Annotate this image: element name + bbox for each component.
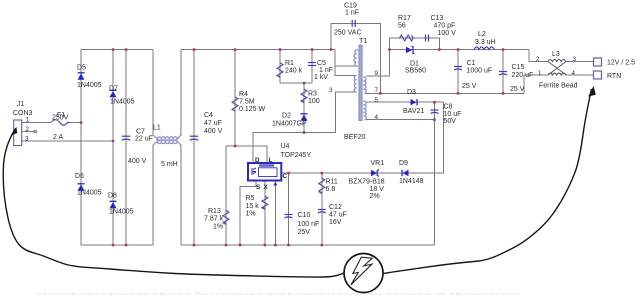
svg-text:1N4005: 1N4005 [109,209,134,216]
capacitor C10 [285,215,293,219]
diode D3 [411,99,418,105]
svg-text:2 A: 2 A [53,134,63,141]
wire C1 column [457,50,459,94]
svg-text:100 nF: 100 nF [298,221,320,228]
svg-text:L: L [269,157,273,164]
svg-text:L2: L2 [478,31,486,38]
svg-text:5: 5 [375,97,379,104]
ferrite bead L3 [548,60,566,76]
svg-text:240 k: 240 k [285,68,303,75]
wire pin5 bias line [366,101,444,103]
IC U4 TOP245Y [248,163,281,186]
wire R4 column [234,50,236,147]
wire L-pin line [226,146,267,163]
svg-text:1 nF: 1 nF [319,67,333,74]
junction (275,245) [274,244,277,247]
svg-text:25 V: 25 V [462,83,477,90]
svg-text:D7: D7 [109,86,118,93]
wire snubber line [389,38,439,50]
wire top rail middle segment [181,49,335,51]
wire C4 column [193,50,195,246]
wire output top step [529,50,548,62]
junction (435,120) [433,119,436,122]
svg-text:3: 3 [573,56,577,63]
svg-text:100 V: 100 V [438,30,457,37]
wire control line [281,172,443,174]
svg-text:400 V: 400 V [204,128,223,135]
junction (322,173) [321,172,324,175]
wire C8 column [434,102,436,120]
svg-text:Ferrite Bead: Ferrite Bead [539,83,578,90]
svg-text:C: C [283,173,288,180]
svg-text:CON3: CON3 [13,110,33,117]
svg-text:18 V: 18 V [370,186,385,193]
svg-text:3.3 uH: 3.3 uH [475,39,496,46]
svg-text:L3: L3 [552,51,560,58]
junction (280,50) [279,48,282,51]
svg-text:D: D [255,157,260,164]
svg-text:C12: C12 [329,204,342,211]
svg-text:BEF20: BEF20 [344,134,366,141]
wire L1 right top [180,50,182,136]
wire C5 leg [311,50,313,84]
wire R3 D2 column [303,83,305,133]
svg-text:1%: 1% [246,211,256,218]
diode D2 [301,114,308,121]
diode D6 [78,184,85,191]
svg-text:BAV21: BAV21 [403,108,424,115]
svg-text:0.125 W: 0.125 W [239,106,265,113]
wire D9 feed riser [443,102,445,173]
wire J1 pin1 [22,122,51,124]
wire return to terminal [566,74,594,76]
svg-text:D8: D8 [108,193,117,200]
junction (113,141) [112,140,115,143]
svg-text:2%: 2% [370,193,380,200]
svg-text:R3: R3 [308,91,317,98]
wire R11 C12 column [321,173,323,245]
svg-text:3: 3 [25,136,29,143]
svg-text:22 uF: 22 uF [135,136,153,143]
junction (194,245) [193,244,196,247]
junction (265,245) [264,244,267,247]
resistor R11 [319,178,325,194]
svg-text:D2: D2 [282,113,291,120]
wire C15 column [502,50,504,94]
svg-text:7: 7 [375,87,379,94]
svg-text:9: 9 [375,70,379,77]
svg-text:VR1: VR1 [371,160,385,167]
resistor R1 [277,63,283,77]
junction (289,173) [287,172,290,175]
wire bottom rail right segment [181,244,435,246]
capacitor C4 [190,136,198,140]
wire C19 loop [331,23,380,93]
junction (194,50) [193,48,196,51]
svg-text:C19: C19 [344,3,357,10]
wire J1 pin3 [22,140,113,142]
junction (380,93) [379,92,382,95]
svg-text:4: 4 [572,70,576,77]
svg-text:5 mH: 5 mH [161,161,178,168]
svg-text:470 pF: 470 pF [434,23,456,30]
diode D5 [78,73,85,80]
junction (126,50) [125,48,128,51]
svg-text:C5: C5 [317,60,326,67]
diode D9 [402,170,409,176]
svg-text:C7: C7 [136,129,145,136]
lightning bolt [351,257,372,285]
surge path curve left [3,129,344,278]
terminal RTN [594,71,602,79]
inductor L1 common mode choke [153,135,181,145]
junction (113,50) [112,48,115,51]
junction (322,245) [321,244,324,247]
junction (235,50) [234,48,237,51]
svg-text:C1: C1 [467,60,476,67]
faint cropped caption [35,293,520,295]
svg-text:2: 2 [26,126,30,133]
svg-text:1 nF: 1 nF [345,10,359,17]
zener VR1 [371,170,379,177]
junction (503,93) [502,92,505,95]
wire output top to terminal [566,61,594,63]
svg-text:L1: L1 [153,125,161,132]
capacitor C13 [426,35,429,42]
junction (126,245) [125,244,128,247]
resistor R17 [400,35,414,41]
junction (435,102) [433,101,436,104]
svg-text:R1: R1 [285,60,294,67]
junction (113,245) [112,244,115,247]
svg-text:J1: J1 [17,101,25,108]
junction (312,50) [311,48,314,51]
svg-text:15 k: 15 k [246,203,260,210]
svg-text:C8: C8 [444,104,453,111]
svg-text:D5: D5 [77,65,86,72]
junction (81,123) [80,121,83,124]
svg-text:220 uF: 220 uF [512,72,534,79]
svg-text:250 VAC: 250 VAC [334,30,362,37]
wire L1 right bottom [180,145,182,245]
wire C7 column [125,50,127,246]
resistor R3 [301,89,307,103]
wire X pin column [264,181,266,246]
svg-text:16V: 16V [329,219,342,226]
svg-text:U4: U4 [281,143,290,150]
wire bridge column D5 D6 [80,50,82,246]
wire pin4 line [366,119,435,121]
resistor R4 [232,97,238,111]
svg-text:T1: T1 [359,38,367,45]
connector J1 [14,120,22,146]
wire F pin column [274,181,276,246]
svg-text:RTN: RTN [607,73,621,80]
wire return step [524,75,548,93]
junction (289,245) [287,244,290,247]
svg-text:1 kV: 1 kV [314,74,328,81]
svg-text:D9: D9 [399,160,408,167]
svg-text:1N4005: 1N4005 [77,82,102,89]
wire C10 column [288,173,290,245]
arrowhead at J1 [11,127,17,136]
wire D1 output line [389,49,529,51]
wire drain line [253,92,356,163]
no-connect pin2 [33,130,37,133]
wire bottom rail left segment [81,244,153,246]
junction (235,146) [234,145,237,148]
transformer T1 [354,45,366,121]
svg-text:1N4005: 1N4005 [110,99,135,106]
svg-text:3: 3 [329,87,333,94]
surge path curve right [383,89,592,274]
svg-text:1N4005: 1N4005 [77,190,102,197]
wire R1 leg [279,50,281,84]
junction (240,245) [239,244,242,247]
svg-text:50V: 50V [444,118,457,125]
diode D8 [110,201,117,208]
svg-text:R17: R17 [398,15,411,22]
svg-text:C10: C10 [298,212,311,219]
svg-text:56: 56 [398,23,406,30]
arrowhead at RTN [588,86,596,97]
capacitor C1 [454,67,462,71]
svg-text:1000 uF: 1000 uF [467,68,493,75]
capacitor C7 [122,136,130,140]
junction (503,50) [502,48,505,51]
wire primary feed [335,50,356,76]
svg-text:1: 1 [538,70,542,77]
svg-text:C4: C4 [204,112,213,119]
svg-text:100: 100 [308,98,320,105]
capacitor C15 [499,72,507,76]
svg-text:25 V: 25 V [510,86,525,93]
wire clamp bottom [280,82,312,84]
svg-text:6.8: 6.8 [326,186,336,193]
capacitor C19 [349,20,355,27]
resistor R5 [262,196,268,209]
wire primary tap stub [335,65,357,67]
svg-text:1: 1 [26,117,30,124]
lightning circle [344,254,383,293]
svg-text:R13: R13 [208,208,221,215]
junction (458,50) [457,48,460,51]
capacitor C12 [318,210,326,214]
svg-text:S: S [256,184,260,191]
wire J1 pin2 stub [22,131,33,133]
svg-text:10 uF: 10 uF [444,111,462,118]
junction (226,245) [225,244,228,247]
inductor L2 [474,47,495,50]
wire L1 left bottom [152,145,154,245]
svg-text:1%: 1% [213,224,223,231]
svg-text:1N4148: 1N4148 [399,178,424,185]
resistor R13 [223,210,229,224]
svg-text:47 uF: 47 uF [329,212,347,219]
wire top rail left segment [81,49,153,51]
svg-text:TOP245Y: TOP245Y [281,152,312,159]
svg-text:R4: R4 [239,91,248,98]
junction (331,50) [330,48,333,51]
wire pin9 and snubber riser [366,38,389,76]
wire bridge column D7 D8 [112,50,114,246]
svg-text:D1: D1 [410,61,419,68]
svg-text:R11: R11 [326,179,338,186]
svg-text:D3: D3 [407,89,416,96]
junction (458,93) [457,92,460,95]
svg-text:2: 2 [536,56,540,63]
svg-text:R5: R5 [246,195,255,202]
svg-text:C13: C13 [431,15,444,22]
wire bias ground riser [434,120,436,245]
svg-text:BZX79-B18: BZX79-B18 [349,179,385,186]
svg-text:SB560: SB560 [405,68,426,75]
capacitor C8 [431,110,439,114]
junction (304,83) [303,82,306,85]
svg-text:1N4007GP: 1N4007GP [272,121,307,128]
capacitor C5 [308,63,316,66]
diode D7 [110,90,117,97]
svg-text:400 V: 400 V [128,158,147,165]
svg-text:250V: 250V [52,115,69,122]
wire J1 pin1 after fuse [69,122,81,124]
fuse F1 [51,120,60,123]
svg-text:C15: C15 [512,64,525,71]
wire R13 column [225,146,227,245]
svg-text:D6: D6 [75,173,84,180]
wire L1 left top [152,50,154,136]
wire S pin path [240,181,256,246]
svg-text:7.87 k: 7.87 k [204,216,224,223]
wire pin7 return line [366,92,524,94]
svg-text:7.5M: 7.5M [239,99,255,106]
svg-text:47 uF: 47 uF [204,120,222,127]
svg-text:12V / 2.5: 12V / 2.5 [607,60,635,67]
diode D1 schottky [406,47,415,54]
svg-text:25V: 25V [298,229,311,236]
terminal 12V [594,58,602,66]
junction (304,133) [303,131,306,134]
junction (389,50) [388,48,391,51]
svg-text:4: 4 [375,114,379,121]
junction (439,50) [438,48,441,51]
